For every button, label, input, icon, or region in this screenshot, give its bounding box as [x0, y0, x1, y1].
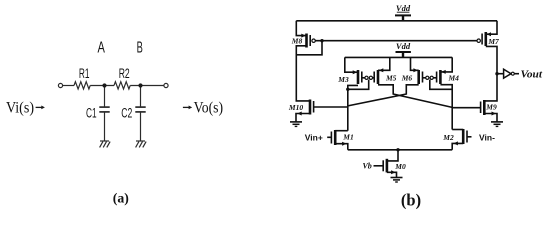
- ground below M9: [491, 122, 503, 127]
- wire M1 gate lead: [327, 136, 331, 138]
- svg-text:Vi(s): Vi(s): [6, 99, 34, 116]
- wire right bus to M6/M4 gate node: [430, 80, 452, 90]
- wire M4 source from inner rail: [440, 57, 452, 72]
- output buffer symbol at Vout: [504, 69, 515, 78]
- wire Vout stub: [497, 73, 504, 75]
- wire M7 drain lead and right rail down to M9: [484, 46, 497, 101]
- svg-text:M3: M3: [337, 75, 349, 84]
- wire top Vdd rail: [296, 20, 497, 22]
- transistor M6 (PMOS cross-coupled): [401, 68, 429, 84]
- svg-text:Vdd: Vdd: [396, 41, 411, 51]
- wire tail bus: [348, 149, 452, 151]
- svg-text:R2: R2: [119, 66, 130, 81]
- wire left bus to M3/M5 gate node: [348, 80, 369, 90]
- ground below M0: [391, 178, 403, 183]
- node B junction dot: [138, 83, 142, 87]
- output terminal Vo: [164, 83, 168, 87]
- capacitor C2: [135, 86, 145, 142]
- wire M1 drain up to left column: [335, 130, 348, 132]
- svg-text:A: A: [98, 40, 106, 57]
- node Vout junction: [495, 72, 498, 75]
- wire M10 gate to left column: [314, 106, 348, 108]
- svg-text:M9: M9: [485, 102, 497, 111]
- ground below C1: [100, 141, 111, 147]
- svg-text:B: B: [137, 40, 143, 57]
- svg-text:Vout: Vout: [521, 69, 544, 80]
- transistor M3 (PMOS load, left): [337, 70, 368, 84]
- wire M5 drain cross-coupled diagonal to right column: [378, 85, 452, 108]
- wire input to R1: [63, 85, 74, 87]
- svg-text:M5: M5: [385, 74, 397, 83]
- node A junction dot: [102, 83, 106, 87]
- svg-text:Vdd: Vdd: [396, 3, 411, 13]
- svg-text:M2: M2: [442, 133, 454, 142]
- wire left column down to M1 drain: [347, 89, 349, 130]
- transistor M8 (PMOS diode-connected, top left): [291, 34, 316, 48]
- resistor R1: [74, 82, 90, 89]
- wire M4 drain to right bus and column down to M2 drain: [440, 85, 452, 130]
- transistor M2 (NMOS diff pair, right): [442, 129, 467, 145]
- wire M6 gate lead: [423, 77, 426, 79]
- svg-text:(b): (b): [401, 190, 421, 209]
- svg-text:C2: C2: [121, 106, 132, 121]
- wire M10 source to ground: [296, 114, 310, 122]
- wire right rail upper (M7 source): [486, 21, 497, 34]
- power symbol Vdd top: [395, 3, 411, 21]
- transistor M5 (PMOS cross-coupled): [369, 68, 396, 84]
- ground below C2: [136, 141, 147, 147]
- svg-text:M4: M4: [447, 73, 459, 82]
- svg-text:M8: M8: [291, 37, 303, 46]
- svg-text:M1: M1: [342, 132, 353, 141]
- svg-text:R1: R1: [79, 66, 90, 81]
- svg-text:M0: M0: [394, 162, 406, 171]
- node tail junction: [396, 148, 399, 151]
- wire M1 source to tail bus: [335, 144, 348, 150]
- wire M2 gate lead: [467, 136, 472, 138]
- transistor M1 (NMOS diff pair, left): [331, 130, 353, 146]
- wire Vout dash after bubble: [514, 73, 519, 75]
- svg-text:M7: M7: [487, 37, 499, 46]
- transistor M4 (PMOS load, right): [430, 70, 459, 84]
- wire M0 gate lead: [374, 165, 384, 167]
- capacitor C1: [99, 86, 109, 142]
- svg-text:Vin-: Vin-: [479, 132, 495, 142]
- label Vo(s) with arrow: [183, 106, 189, 108]
- svg-text:Vin+: Vin+: [305, 132, 323, 142]
- node left bus junction: [346, 88, 349, 91]
- wire M8 gate-drain tie: [296, 41, 322, 55]
- wire M0 drain from tail node: [387, 150, 398, 161]
- ground below M10: [290, 122, 302, 127]
- wire M6 drain cross-coupled diagonal to left column: [348, 85, 419, 106]
- wire M8 gate to M7 gate (mirror wire): [315, 40, 477, 42]
- wire R1 to node A to R2: [90, 85, 114, 87]
- wire M8 gate lead handled above; M3 gate lead: [362, 77, 365, 79]
- transistor M7 (PMOS mirror, top right): [477, 32, 499, 46]
- svg-text:M10: M10: [288, 103, 303, 112]
- wire M5 source from inner rail: [378, 57, 390, 70]
- wire M3-M5 gate link: [373, 77, 375, 79]
- wire M0 source to ground: [387, 172, 397, 177]
- input terminal Vi: [58, 83, 62, 87]
- transistor M9 (NMOS cascode, right): [481, 100, 497, 116]
- svg-text:(a): (a): [113, 191, 129, 207]
- transistor M10 (NMOS cascode, left): [288, 100, 314, 116]
- svg-text:M6: M6: [401, 74, 413, 83]
- resistor R2: [114, 82, 130, 89]
- power symbol Vdd inner: [396, 41, 411, 58]
- svg-text:Vo(s): Vo(s): [194, 99, 224, 116]
- wire M9 source to ground: [484, 114, 497, 122]
- wire M3 drain to left bus: [348, 85, 358, 89]
- wire inner Vdd rail: [345, 56, 452, 58]
- wire M9 gate from right column: [452, 107, 480, 109]
- svg-text:Vb: Vb: [362, 161, 371, 170]
- wire left rail upper (M8 source to rail): [296, 21, 306, 36]
- wire M3 source from inner rail: [345, 57, 358, 72]
- wire M2 source to tail bus: [452, 143, 463, 149]
- svg-text:C1: C1: [86, 106, 97, 121]
- wire R2 to node B to output: [130, 85, 164, 87]
- transistor M0 (NMOS tail current source): [383, 159, 406, 175]
- wire M6-M4 gate link: [433, 77, 436, 79]
- wire M2 drain up to right column: [452, 129, 463, 131]
- wire M8 drain lead and left rail down to M10: [296, 46, 310, 101]
- wire M6 source from inner rail: [411, 57, 419, 70]
- node M8 gate-drain junction: [320, 39, 323, 42]
